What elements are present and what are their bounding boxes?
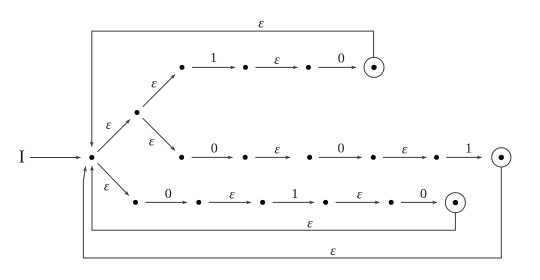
svg-text:ε: ε bbox=[149, 135, 155, 150]
svg-text:1: 1 bbox=[291, 187, 298, 202]
wire 0 B1 to B2 bbox=[146, 201, 188, 203]
svg-text:0: 0 bbox=[338, 52, 345, 67]
svg-text:ε: ε bbox=[275, 142, 281, 157]
node M5 bbox=[434, 155, 439, 160]
wire 1 B3 to B4 bbox=[273, 201, 314, 203]
wire epsilon junction to top row bbox=[143, 75, 175, 107]
svg-text:ε: ε bbox=[307, 217, 313, 232]
wire 1 T1 to T2 bbox=[192, 66, 235, 68]
svg-text:1: 1 bbox=[210, 51, 217, 66]
wire epsilon loop F2 back to start (outer return) bbox=[83, 167, 501, 259]
node B1 bottom row bbox=[133, 200, 138, 205]
node M1 middle row bbox=[179, 155, 184, 160]
node M3 bbox=[307, 155, 312, 160]
svg-text:ε: ε bbox=[104, 179, 110, 194]
node M2 bbox=[243, 155, 248, 160]
node T1 top row bbox=[180, 65, 185, 70]
node B3 bbox=[260, 200, 265, 205]
wire epsilon B4 to B5 bbox=[336, 201, 380, 203]
wire 0 M1 to M2 bbox=[192, 156, 233, 158]
wire I to start node bbox=[30, 157, 81, 159]
node T3 bbox=[306, 65, 311, 70]
wire epsilon start to bottom row bbox=[98, 163, 129, 195]
wire epsilon M4 to M5 bbox=[383, 156, 427, 158]
node T2 bbox=[243, 65, 248, 70]
svg-text:ε: ε bbox=[151, 77, 157, 92]
svg-text:1: 1 bbox=[465, 142, 472, 157]
svg-text:ε: ε bbox=[258, 16, 264, 31]
node junction bbox=[135, 110, 140, 115]
wire 0 T3 to accept F1 bbox=[318, 66, 356, 68]
svg-text:0: 0 bbox=[211, 142, 218, 157]
node start bbox=[89, 155, 94, 160]
node B4 bbox=[323, 200, 328, 205]
svg-text:ε: ε bbox=[229, 188, 235, 203]
svg-text:0: 0 bbox=[338, 142, 345, 157]
node B2 bbox=[196, 200, 201, 205]
accept state F2 bbox=[492, 148, 511, 167]
svg-text:ε: ε bbox=[402, 142, 408, 157]
wire 1 M5 to accept F2 bbox=[446, 156, 481, 158]
svg-text:ε: ε bbox=[330, 244, 336, 259]
wire epsilon loop F3 back to start (middle return) bbox=[92, 166, 455, 230]
accept state F1 bbox=[364, 57, 384, 77]
svg-text:ε: ε bbox=[106, 118, 112, 133]
svg-text:ε: ε bbox=[274, 53, 280, 68]
wire epsilon loop F1 back to start (top) bbox=[92, 31, 374, 146]
wire epsilon M2 to M3 bbox=[255, 156, 290, 158]
wire epsilon start to junction bbox=[98, 120, 131, 152]
wire epsilon T2 to T3 bbox=[256, 66, 298, 68]
svg-text:0: 0 bbox=[420, 187, 427, 202]
svg-text:I: I bbox=[19, 147, 25, 167]
svg-text:0: 0 bbox=[165, 187, 172, 202]
node B5 bbox=[389, 200, 394, 205]
accept state F3 bbox=[445, 193, 465, 213]
wire epsilon B2 to B3 bbox=[209, 201, 251, 203]
wire 0 B5 to accept F3 bbox=[401, 201, 437, 203]
wire 0 M3 to M4 bbox=[319, 156, 362, 158]
svg-text:ε: ε bbox=[357, 188, 363, 203]
node M4 bbox=[371, 155, 376, 160]
wire epsilon junction to middle row bbox=[143, 118, 175, 150]
